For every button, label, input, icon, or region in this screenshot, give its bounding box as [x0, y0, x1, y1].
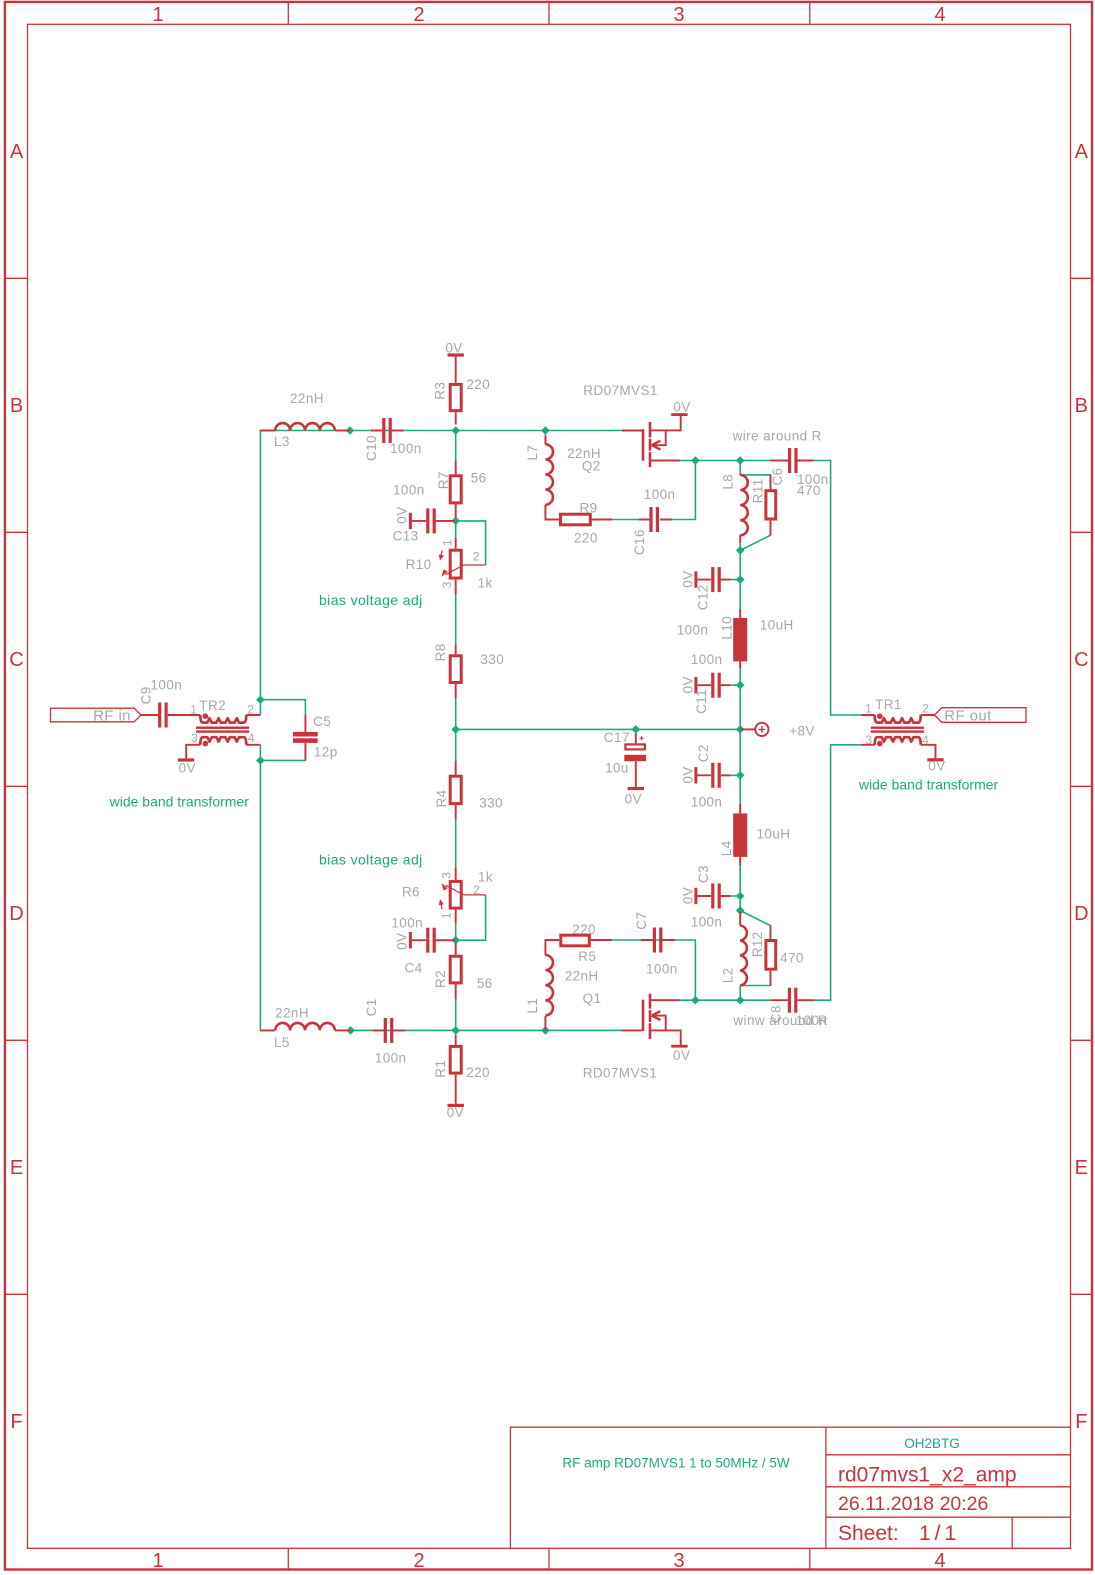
svg-text:L1: L1 [525, 998, 540, 1014]
svg-text:R2: R2 [433, 970, 448, 988]
svg-text:4: 4 [934, 1550, 945, 1572]
svg-text:1: 1 [440, 539, 454, 546]
svg-text:0V: 0V [680, 887, 695, 904]
svg-text:220: 220 [572, 922, 596, 937]
svg-text:100n: 100n [646, 961, 678, 976]
svg-text:RF in: RF in [93, 707, 131, 724]
svg-text:+8V: +8V [789, 724, 815, 739]
svg-text:4: 4 [934, 4, 945, 26]
svg-text:E: E [10, 1157, 23, 1179]
svg-text:C12: C12 [695, 584, 710, 610]
svg-text:12p: 12p [314, 744, 338, 759]
svg-text:B: B [1075, 395, 1088, 417]
svg-text:Sheet:: Sheet: [838, 1522, 899, 1545]
svg-text:2: 2 [922, 701, 929, 715]
svg-text:R7: R7 [436, 471, 451, 489]
svg-text:C3: C3 [696, 865, 711, 883]
svg-text:0V: 0V [680, 676, 695, 693]
svg-text:C4: C4 [405, 961, 423, 976]
svg-text:R8: R8 [433, 643, 448, 661]
svg-text:B: B [10, 395, 23, 417]
svg-text:220: 220 [466, 1065, 490, 1080]
svg-text:R6: R6 [402, 885, 420, 900]
svg-text:56: 56 [477, 976, 493, 991]
svg-text:R5: R5 [578, 949, 596, 964]
svg-text:100n: 100n [691, 652, 723, 667]
svg-text:100n: 100n [391, 915, 423, 930]
svg-text:22nH: 22nH [275, 1005, 309, 1020]
svg-text:100n: 100n [644, 487, 676, 502]
svg-text:C13: C13 [393, 528, 419, 543]
svg-text:RD07MVS1: RD07MVS1 [583, 1065, 657, 1080]
svg-text:0V: 0V [680, 766, 695, 783]
svg-text:R3: R3 [433, 382, 448, 400]
svg-text:wire around R: wire around R [732, 428, 822, 443]
svg-text:RF out: RF out [944, 707, 992, 724]
svg-text:C9: C9 [139, 686, 154, 704]
svg-text:0V: 0V [447, 1105, 464, 1120]
svg-text:1: 1 [152, 1550, 163, 1572]
svg-text:L3: L3 [274, 434, 290, 449]
svg-text:330: 330 [479, 796, 503, 811]
svg-text:220: 220 [574, 531, 598, 546]
svg-text:10u: 10u [605, 761, 629, 776]
svg-text:0V: 0V [673, 400, 690, 415]
svg-text:220: 220 [466, 377, 490, 392]
svg-text:C: C [9, 649, 23, 671]
svg-text:Q1: Q1 [583, 991, 602, 1006]
svg-text:L7: L7 [525, 445, 540, 461]
svg-text:C2: C2 [696, 744, 711, 762]
svg-text:L2: L2 [720, 967, 735, 983]
svg-text:22nH: 22nH [565, 969, 599, 984]
svg-text:10uH: 10uH [760, 618, 794, 633]
svg-text:R12: R12 [750, 931, 765, 957]
svg-text:C: C [1074, 649, 1088, 671]
svg-text:C1: C1 [364, 998, 379, 1016]
svg-text:bias voltage adj: bias voltage adj [319, 592, 423, 608]
svg-text:R1: R1 [433, 1060, 448, 1078]
svg-text:2: 2 [413, 1550, 424, 1572]
svg-text:0V: 0V [395, 933, 410, 950]
svg-text:0V: 0V [395, 506, 410, 523]
svg-text:L4: L4 [719, 840, 734, 856]
svg-text:R9: R9 [580, 501, 598, 516]
svg-text:1: 1 [152, 4, 163, 26]
svg-text:10uH: 10uH [757, 826, 791, 841]
svg-text:wide band transformer: wide band transformer [858, 776, 999, 792]
svg-text:100n: 100n [691, 915, 723, 930]
svg-text:0V: 0V [625, 791, 642, 806]
svg-text:0V: 0V [445, 341, 462, 356]
svg-text:2: 2 [473, 883, 480, 897]
svg-text:R11: R11 [751, 478, 766, 503]
svg-text:2: 2 [413, 4, 424, 26]
svg-text:D: D [9, 903, 23, 925]
svg-text:C8: C8 [769, 1005, 784, 1023]
svg-text:100n: 100n [796, 1013, 828, 1028]
svg-text:100n: 100n [677, 623, 709, 638]
svg-text:C11: C11 [694, 689, 709, 714]
svg-text:A: A [10, 141, 24, 163]
svg-text:L8: L8 [721, 474, 736, 490]
svg-text:1: 1 [865, 702, 872, 716]
svg-text:F: F [10, 1411, 22, 1433]
svg-text:C7: C7 [634, 912, 649, 930]
svg-text:3: 3 [191, 731, 198, 745]
svg-text:1: 1 [190, 702, 197, 716]
svg-text:wide band transformer: wide band transformer [109, 793, 250, 809]
svg-text:0V: 0V [928, 759, 945, 774]
svg-text:1k: 1k [478, 576, 493, 591]
svg-text:C6: C6 [770, 467, 785, 485]
svg-text:R4: R4 [434, 789, 449, 807]
svg-text:Q2: Q2 [582, 458, 601, 473]
svg-text:C5: C5 [313, 714, 331, 729]
svg-text:100n: 100n [375, 1051, 407, 1066]
svg-text:OH2BTG: OH2BTG [904, 1436, 960, 1451]
svg-text:TR1: TR1 [875, 697, 902, 712]
svg-text:470: 470 [797, 483, 821, 498]
svg-text:3: 3 [866, 733, 873, 747]
svg-text:rd07mvs1_x2_amp: rd07mvs1_x2_amp [838, 1464, 1017, 1487]
svg-text:D: D [1074, 903, 1088, 925]
svg-text:56: 56 [471, 471, 487, 486]
svg-text:E: E [1075, 1157, 1088, 1179]
svg-text:2: 2 [247, 702, 254, 716]
svg-text:bias voltage adj: bias voltage adj [319, 852, 423, 868]
svg-text:R10: R10 [406, 557, 432, 572]
svg-text:3: 3 [440, 872, 454, 879]
svg-text:1/1: 1/1 [919, 1522, 960, 1545]
svg-text:4: 4 [248, 731, 255, 745]
svg-text:C16: C16 [632, 529, 647, 555]
svg-text:F: F [1075, 1411, 1087, 1433]
svg-text:3: 3 [673, 4, 684, 26]
svg-text:0V: 0V [680, 570, 695, 587]
svg-text:22nH: 22nH [290, 391, 324, 406]
svg-text:2: 2 [473, 550, 480, 564]
svg-text:470: 470 [780, 951, 804, 966]
svg-text:0V: 0V [179, 760, 196, 775]
svg-text:4: 4 [922, 733, 929, 747]
svg-text:1: 1 [440, 912, 454, 919]
svg-text:TR2: TR2 [199, 698, 226, 713]
svg-text:3: 3 [440, 581, 454, 588]
svg-text:330: 330 [480, 652, 504, 667]
svg-text:RF amp RD07MVS1 1 to 50MHz / 5: RF amp RD07MVS1 1 to 50MHz / 5W [562, 1456, 790, 1471]
svg-text:C17: C17 [604, 730, 630, 745]
svg-text:C10: C10 [364, 435, 379, 461]
svg-text:0V: 0V [673, 1048, 690, 1063]
svg-text:26.11.2018 20:26: 26.11.2018 20:26 [838, 1493, 988, 1515]
svg-text:L5: L5 [274, 1035, 290, 1050]
svg-text:100n: 100n [390, 441, 422, 456]
svg-text:3: 3 [673, 1550, 684, 1572]
svg-text:RD07MVS1: RD07MVS1 [583, 383, 657, 398]
svg-text:100n: 100n [691, 794, 723, 809]
svg-text:100n: 100n [151, 677, 183, 692]
svg-text:100n: 100n [393, 483, 425, 498]
svg-text:A: A [1075, 141, 1089, 163]
svg-text:L10: L10 [720, 616, 735, 640]
